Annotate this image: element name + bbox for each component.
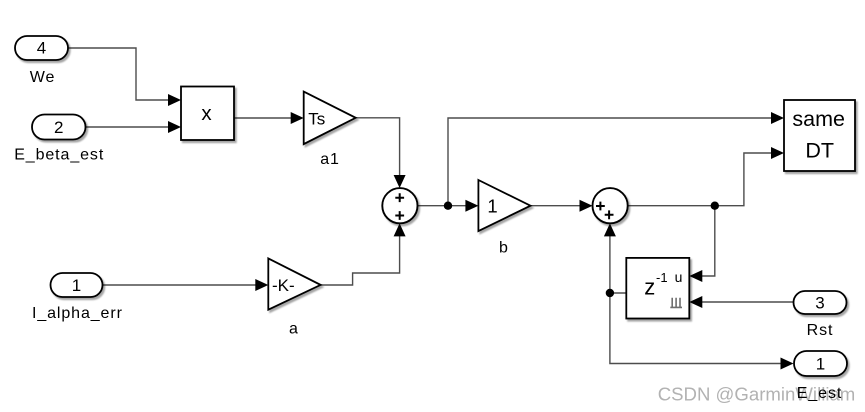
svg-text:DT: DT [805,139,834,163]
wire sum1 to gain b [418,205,468,207]
reset icon [670,298,682,308]
svg-text:-K-: -K- [272,276,295,295]
svg-text:u: u [675,269,683,285]
wire Ts to sum1 top [356,118,400,176]
svg-text:b: b [499,240,508,257]
svg-text:Rst: Rst [807,322,834,339]
product block x [181,87,234,141]
svg-text:-1: -1 [656,270,668,285]
wire junction up to sum2 bottom [609,236,611,293]
gain Ts [304,92,356,145]
inport 3 (Rst) [794,291,847,314]
junction node at unit delay output [606,289,614,297]
svg-text:4: 4 [37,39,46,58]
junction node after sum1 [444,202,452,210]
same DT block [784,100,855,171]
plus sign input 1 [596,202,605,211]
wire gain b to sum2 [531,205,582,207]
plus sign input 2 [605,210,614,219]
svg-text:1: 1 [816,355,825,374]
gain b (1) [478,180,530,231]
inport 2 [32,115,86,140]
wire branch sum1 up to same DT input1 [448,118,773,206]
svg-text:same: same [792,107,845,131]
wire We to product [68,48,169,100]
svg-text:2: 2 [54,118,63,137]
svg-text:1: 1 [487,196,497,217]
svg-text:Ts: Ts [308,109,325,128]
inport 4 [15,36,68,60]
plus sign input 1 [395,193,404,202]
wire E_beta_est to product [86,126,170,128]
svg-text:I_alpha_err: I_alpha_err [32,305,123,322]
wire sum2 to corner and same DT input2 [628,153,773,206]
wire Rst to unit delay reset input [702,301,794,303]
plus sign input 2 [395,211,404,220]
svg-text:a: a [289,321,298,338]
svg-text:We: We [30,69,56,86]
svg-text:a1: a1 [320,151,340,168]
svg-text:3: 3 [815,294,824,313]
wire product to Ts [234,117,292,119]
svg-text:1: 1 [72,276,81,295]
svg-text:z: z [644,275,655,300]
wire gain a to sum1 bottom [321,236,400,285]
wire unit delay output to junction [610,292,626,294]
junction node after sum2 [711,202,719,210]
wire junction down to out port E_est [610,293,781,364]
outport 1 (E_est) [794,351,847,376]
svg-text:x: x [201,102,212,125]
gain a (-K-) [268,258,320,309]
wire branch down to unit delay input u [702,206,715,276]
svg-text:E_est: E_est [797,385,842,402]
sum1 [382,188,417,223]
wire I_alpha_err to gain a [103,284,258,286]
unit delay block [626,258,689,319]
svg-text:E_beta_est: E_beta_est [14,147,104,164]
sum2 [593,188,628,223]
inport 1 [51,273,103,297]
